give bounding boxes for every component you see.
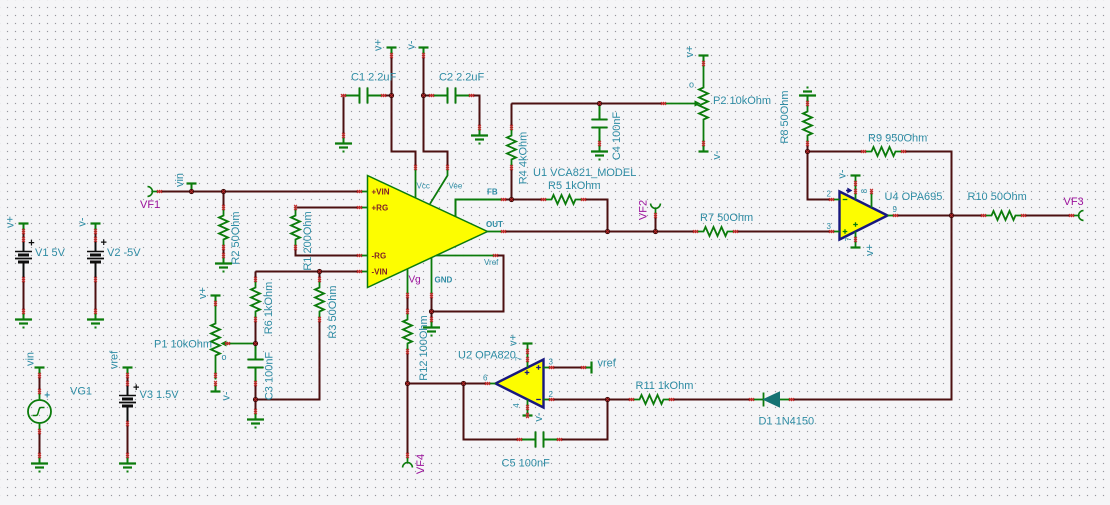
svg-text:FB: FB <box>487 188 498 197</box>
svg-text:2: 2 <box>827 190 832 199</box>
resistor R2 <box>219 208 228 248</box>
jumper v+ at P2 <box>699 54 709 56</box>
node U4out/R10/D1 <box>949 213 954 218</box>
svg-text:R11 1kOhm: R11 1kOhm <box>636 380 694 392</box>
U4 pin8 stub <box>871 192 873 208</box>
capacitor C4 <box>592 104 608 144</box>
U2 out stub <box>488 383 496 385</box>
node VF2/OUT <box>653 229 658 234</box>
capacitor C3 <box>248 344 264 384</box>
resistor R11 <box>632 395 672 404</box>
resistor R12 <box>403 312 412 352</box>
U1 pin +RG stub <box>360 207 368 209</box>
wire V3 bottom to ground <box>127 424 129 456</box>
svg-text:+RG: +RG <box>372 204 389 213</box>
U1 pin Vcc stub <box>415 168 417 198</box>
wire V2 bottom to ground <box>95 280 97 312</box>
wire R3 bottom to C3 node <box>256 320 320 400</box>
svg-text:v-: v- <box>837 169 849 179</box>
ground VG1 <box>31 456 48 468</box>
wire V1 top <box>23 232 25 240</box>
U1 pin Vg stub <box>407 269 409 296</box>
voltage pin VF4 <box>403 463 413 468</box>
svg-text:V1 5V: V1 5V <box>35 247 66 259</box>
capacitor C2 <box>432 88 472 104</box>
svg-text:v-: v- <box>711 150 723 160</box>
jumper v- at P2 <box>699 150 709 152</box>
svg-text:R5 1kOhm: R5 1kOhm <box>548 180 601 192</box>
U1 pin OUT stub <box>488 231 504 233</box>
wire C3 bottom to ground node <box>255 384 257 412</box>
wire U4 out to node <box>896 215 952 217</box>
U1 pin -VIN stub <box>360 271 368 273</box>
wire R9 to output node <box>904 152 952 216</box>
svg-text:C4 100nF: C4 100nF <box>611 112 623 161</box>
svg-text:R3 50Ohm: R3 50Ohm <box>327 285 339 338</box>
battery V1 <box>15 240 32 280</box>
svg-text:R6 1kOhm: R6 1kOhm <box>263 282 275 335</box>
resistor R1 <box>291 208 300 248</box>
svg-text:+: + <box>28 238 34 250</box>
svg-text:v-: v- <box>406 40 418 50</box>
node C3/R3/ground <box>253 397 258 402</box>
resistor R5 <box>544 195 584 204</box>
svg-text:VF3: VF3 <box>1064 196 1084 208</box>
svg-text:R10 50Ohm: R10 50Ohm <box>968 191 1027 203</box>
wire V1 bottom to ground <box>23 280 25 312</box>
svg-text:+VIN: +VIN <box>372 188 390 197</box>
U1 pin -RG stub <box>360 255 368 257</box>
svg-text:Vg: Vg <box>409 275 421 286</box>
wire V2 top <box>95 232 97 240</box>
wire C1 right to node <box>384 95 392 97</box>
wire vin net: VF1 to U1 +VIN <box>160 191 360 193</box>
potentiometer P1 <box>211 300 220 380</box>
svg-text:7: 7 <box>844 236 853 241</box>
voltage pin VF3 <box>1079 211 1084 221</box>
svg-text:R4 4kOhm: R4 4kOhm <box>518 132 530 185</box>
U4 pin3 stub <box>832 231 840 233</box>
wire R1 bottom to -RG <box>296 248 360 256</box>
U2 power stub top <box>527 344 529 368</box>
ground at U1 GND <box>423 320 440 332</box>
node FB/R4/R5 <box>509 197 514 202</box>
wire VG1 bottom to ground <box>39 432 41 456</box>
pin marks <box>157 190 162 193</box>
node U2out/C5 <box>461 381 466 386</box>
jumper v- at U2 <box>523 414 533 416</box>
resistor R10 <box>984 211 1024 220</box>
battery V2 <box>87 240 104 280</box>
wire OUT net to U4 pin3 <box>736 231 832 233</box>
resistor R7 <box>696 227 736 236</box>
wire node to R9 <box>808 151 864 153</box>
svg-text:v+: v+ <box>864 244 876 256</box>
svg-text:Vcc: Vcc <box>417 182 430 191</box>
ground C2 <box>471 128 488 140</box>
P1 wiper arrow <box>228 343 256 345</box>
wire R2 to ground <box>223 248 225 256</box>
capacitor C5 <box>520 432 560 448</box>
wire node to R11 <box>608 399 632 401</box>
svg-text:GND: GND <box>435 276 453 285</box>
wire v+ rail to Vcc pin <box>392 56 416 168</box>
voltage pin VF2 <box>651 204 661 209</box>
svg-text:R8 50Ohm: R8 50Ohm <box>779 90 791 143</box>
svg-text:2: 2 <box>549 390 554 399</box>
wire -VIN to R3 <box>319 272 321 280</box>
wire R6 to wiper node <box>255 320 257 344</box>
jumper v+ at U2 <box>523 342 533 344</box>
svg-text:9: 9 <box>893 205 898 214</box>
wire D1 to U4 output node <box>792 216 952 400</box>
U4 arrow mark <box>846 189 851 193</box>
wire +RG to R1 top <box>296 207 360 209</box>
op-amp U1 VCA821 triangle <box>368 176 488 288</box>
U4 out stub <box>888 215 896 217</box>
svg-text:-VIN: -VIN <box>372 268 388 277</box>
generator VG1 circle <box>28 400 51 423</box>
ground jumper at R8 top <box>799 92 816 104</box>
node U2pin2/C5/R11 <box>605 397 610 402</box>
svg-text:v+: v+ <box>197 287 209 299</box>
ground C1 <box>335 136 352 148</box>
wire VG1 top <box>39 376 41 392</box>
resistor R8 <box>803 104 812 144</box>
node C1/v+ <box>389 93 394 98</box>
svg-text:v-: v- <box>221 391 233 401</box>
U1 pin +VIN stub <box>360 191 368 193</box>
wire Vg to R12 <box>407 296 409 312</box>
resistor R4 <box>507 128 516 168</box>
node R8/R9/pin2 <box>805 149 810 154</box>
voltage pin VF1 <box>148 187 153 197</box>
wire Vref to GND node <box>432 256 504 312</box>
svg-text:Vee: Vee <box>449 182 463 191</box>
svg-text:R1 200Ohm: R1 200Ohm <box>302 211 314 270</box>
U1 pin Vref stub <box>436 255 496 257</box>
svg-text:C5 100nF: C5 100nF <box>502 458 551 470</box>
svg-text:VG1: VG1 <box>70 386 92 398</box>
node R3/-VIN <box>317 269 322 274</box>
op-amp U2 OPA820 triangle <box>496 360 544 408</box>
ground C4 <box>591 144 608 156</box>
wire V3 top <box>127 376 129 384</box>
ground R2 <box>215 256 232 268</box>
U2 pin2 stub <box>544 399 552 401</box>
ground V1 <box>15 312 32 324</box>
U1 pin GND stub <box>431 258 433 296</box>
wire FB pin to node <box>504 199 512 201</box>
U2 plus mark <box>536 365 541 370</box>
capacitor C1 <box>344 88 384 104</box>
wire GND pin to node <box>431 296 433 320</box>
svg-text:-RG: -RG <box>372 252 387 261</box>
P2 wiper arrow <box>664 103 696 105</box>
wire VF4 node to U2 out <box>408 383 488 385</box>
wire OUT net <box>504 231 696 233</box>
wire v- rail to Vee pin <box>424 56 448 168</box>
jumper vin at VG1 <box>35 366 45 368</box>
svg-text:v+: v+ <box>508 334 520 346</box>
battery V3 <box>119 384 136 424</box>
resistor R9 <box>864 147 904 156</box>
svg-text:R7 50Ohm: R7 50Ohm <box>700 212 753 224</box>
svg-text:vin: vin <box>25 352 37 366</box>
node P1 wiper <box>253 341 258 346</box>
U4 plus mark <box>843 229 848 234</box>
svg-text:C3 100nF: C3 100nF <box>264 352 276 401</box>
svg-text:U2 OPA820: U2 OPA820 <box>458 350 516 362</box>
wire R12 to VF4 node <box>407 352 409 384</box>
svg-text:OUT: OUT <box>486 220 503 229</box>
svg-text:R9 950Ohm: R9 950Ohm <box>868 133 927 145</box>
svg-text:P2 10kOhm: P2 10kOhm <box>713 95 771 107</box>
resistor R3 <box>315 280 324 320</box>
jumper v+ at P1 <box>211 294 221 296</box>
svg-text:3: 3 <box>827 222 832 231</box>
wire U2 pin3 to vref jumper <box>552 367 584 369</box>
jumper vref at U2 pin3 <box>590 362 592 374</box>
U2 plus mark 2 <box>525 370 530 375</box>
jumper v- at P1 <box>211 390 221 392</box>
U4 power stub top <box>855 176 857 200</box>
jumper vin at net <box>187 182 197 184</box>
VG1 leads <box>39 392 41 401</box>
wire R11 to D1 <box>672 399 752 401</box>
wire VF4 node down <box>407 384 409 456</box>
svg-text:v+: v+ <box>684 46 696 58</box>
wire R2 to vin net <box>223 192 225 208</box>
jumper v+ at V1 <box>19 222 29 224</box>
wire node to R10 <box>952 215 984 217</box>
node GND/Vref <box>429 309 434 314</box>
svg-text:V2 -5V: V2 -5V <box>107 247 141 259</box>
svg-text:D1 1N4150: D1 1N4150 <box>759 416 815 428</box>
op-amp U4 OPA695 triangle <box>840 192 888 240</box>
wire C1 left to ground <box>343 96 345 136</box>
svg-text:4: 4 <box>512 403 521 408</box>
wire R5 to OUT net <box>584 200 608 232</box>
svg-text:+: + <box>44 390 50 401</box>
svg-text:o: o <box>222 352 227 362</box>
U2 pin3 stub <box>544 367 552 369</box>
U1 pin FB stub <box>456 200 504 217</box>
jumper v- at U4 <box>851 174 861 176</box>
node C4/FB net <box>597 101 602 106</box>
wire C2 right to ground <box>472 96 480 128</box>
svg-text:U1 VCA821_MODEL: U1 VCA821_MODEL <box>533 167 636 179</box>
jumper v+ at C1 <box>387 46 397 48</box>
jumper v- at V2 <box>91 222 101 224</box>
ground C3 node <box>247 412 264 424</box>
wire C2 left to node <box>424 95 432 97</box>
wire -VIN to R6 <box>255 272 257 280</box>
svg-text:vref: vref <box>598 358 617 370</box>
U4 power stub bottom <box>855 232 857 248</box>
node R12/VF4/U2 <box>405 381 410 386</box>
svg-text:V3 1.5V: V3 1.5V <box>140 389 180 401</box>
wire C5 to pin2 node <box>560 400 608 440</box>
wire -VIN net <box>256 271 360 273</box>
wire R8 to pin2 node <box>807 144 809 152</box>
svg-text:Vref: Vref <box>484 258 499 267</box>
diode D1 1N4150 <box>752 393 792 407</box>
svg-text:vin: vin <box>174 173 186 187</box>
ground V2 <box>87 312 104 324</box>
U2 minus mark <box>536 399 541 401</box>
node C2/v- <box>421 93 426 98</box>
svg-text:R12 100Ohm: R12 100Ohm <box>418 315 430 380</box>
jumper v+ at U4 <box>851 246 861 248</box>
resistor R6 <box>251 280 260 320</box>
wire U2 out node to C5 <box>464 384 520 440</box>
node vin jumper <box>189 189 194 194</box>
svg-text:C1 2.2uF: C1 2.2uF <box>351 72 397 84</box>
svg-text:v+: v+ <box>5 216 17 228</box>
U4 plus mark 2 <box>853 222 858 227</box>
wire FB net top <box>512 103 664 105</box>
U1 pin Vee stub <box>430 168 448 204</box>
potentiometer P2 <box>699 64 708 144</box>
svg-text:vref: vref <box>109 350 121 369</box>
wire P2 wiper net <box>600 103 664 105</box>
U4 minus mark <box>843 199 848 201</box>
svg-text:6: 6 <box>483 374 488 383</box>
wire R4 bottom to FB node <box>511 168 513 200</box>
wire R4 top <box>511 104 513 128</box>
jumper vref at V3 <box>123 366 133 368</box>
wire node to U4 pin2 <box>808 152 832 200</box>
svg-text:8: 8 <box>860 188 869 193</box>
svg-text:+: + <box>101 237 107 249</box>
svg-text:3: 3 <box>549 358 554 367</box>
wire U2 pin2 to node <box>552 399 608 401</box>
svg-text:R2 50Ohm: R2 50Ohm <box>230 211 242 264</box>
node R2/vin <box>221 189 226 194</box>
node R5/OUT <box>605 229 610 234</box>
jumper v- at C2 <box>419 46 429 48</box>
svg-text:C2 2.2uF: C2 2.2uF <box>439 72 485 84</box>
svg-text:P1 10kOhm: P1 10kOhm <box>154 339 212 351</box>
wire FB node to R5 <box>512 199 544 201</box>
svg-text:v-: v- <box>533 412 545 422</box>
svg-text:+: + <box>133 382 139 394</box>
wire R10 to VF3 <box>1024 215 1072 217</box>
svg-text:VF2: VF2 <box>638 200 650 220</box>
ground V3 <box>119 456 136 468</box>
U2 power stub bottom <box>527 400 529 416</box>
svg-text:U4 OPA695: U4 OPA695 <box>885 191 943 203</box>
svg-text:VF1: VF1 <box>140 199 160 211</box>
U4 pin2 stub <box>832 199 840 201</box>
svg-text:v-: v- <box>77 217 89 227</box>
svg-text:o: o <box>689 80 694 90</box>
svg-text:v+: v+ <box>373 39 385 51</box>
wire VF2 stub <box>655 216 657 232</box>
svg-text:VF4: VF4 <box>415 454 427 474</box>
